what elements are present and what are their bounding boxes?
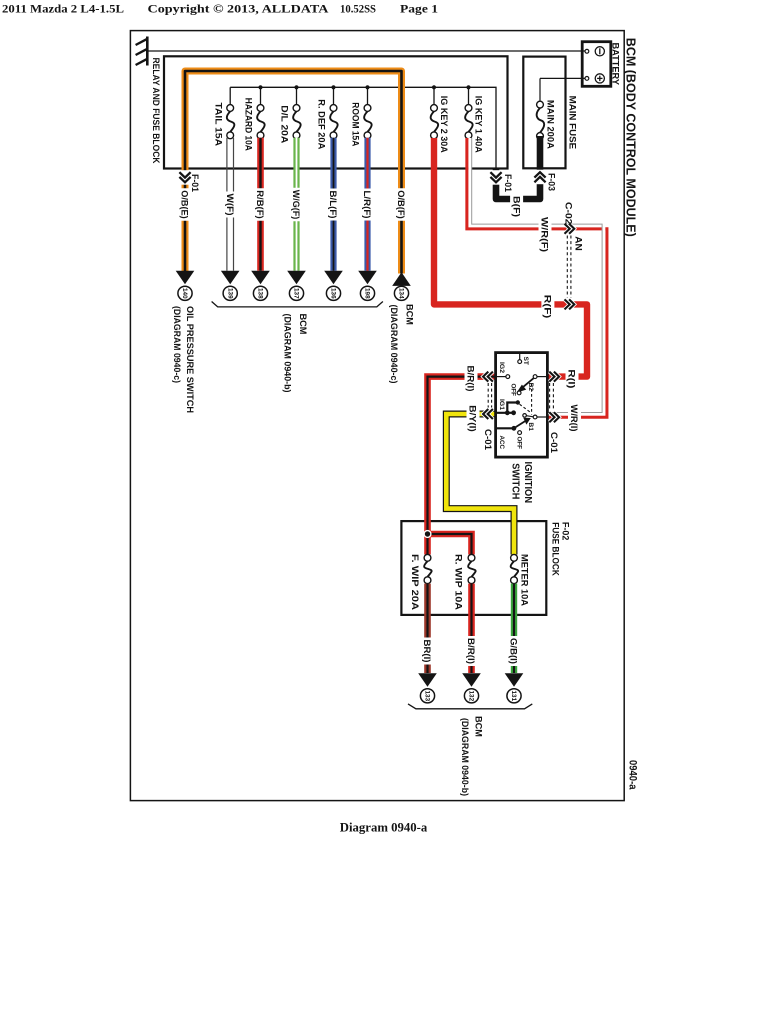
svg-text:138: 138	[257, 288, 264, 299]
connector F-01 on B(F)	[489, 170, 503, 185]
svg-text:133: 133	[424, 691, 431, 702]
fuse stub x=367.5	[367, 87, 369, 105]
fuse IG KEY 2 30A	[431, 105, 438, 112]
svg-text:G/B(I): G/B(I)	[509, 638, 519, 664]
bus wire from fuses to B(F)	[230, 87, 496, 168]
svg-text:O/B(F): O/B(F)	[396, 190, 406, 219]
arrow to terminal 140	[176, 271, 195, 285]
arrow from terminal 134	[392, 272, 411, 286]
svg-text:TAIL 15A: TAIL 15A	[213, 103, 223, 147]
junction halo	[423, 530, 431, 538]
terminal circle 136	[326, 286, 340, 300]
ignition IG1 contact L	[507, 403, 517, 412]
svg-text:O/B(E): O/B(E)	[180, 190, 190, 219]
label L/R(F)	[361, 189, 374, 221]
terminal circle 134	[394, 286, 408, 300]
svg-text:MAIN 200A: MAIN 200A	[546, 100, 556, 149]
wire W(F) white	[226, 138, 228, 271]
wire L/R(F)	[364, 138, 370, 271]
svg-text:B/Y(I): B/Y(I)	[468, 405, 478, 432]
label B(F)	[510, 195, 523, 219]
label W/R(I)	[568, 403, 581, 433]
wire B/L(F)	[330, 138, 336, 271]
svg-text:R(I): R(I)	[567, 369, 577, 388]
svg-text:(DIAGRAM 0940-c): (DIAGRAM 0940-c)	[172, 306, 182, 383]
arrow to terminal 131	[505, 673, 524, 687]
wire B/R(I) branch to R. WIP fuse	[428, 534, 472, 555]
svg-text:SWITCH: SWITCH	[509, 463, 520, 499]
svg-text:(DIAGRAM 0940-b): (DIAGRAM 0940-b)	[460, 718, 470, 796]
relay and fuse block box	[164, 56, 508, 168]
svg-text:BCM (BODY CONTROL MODULE): BCM (BODY CONTROL MODULE)	[624, 38, 639, 237]
svg-text:W/G(F): W/G(F)	[291, 190, 301, 220]
ignition B2 terminal	[533, 375, 537, 379]
fuse R. DEF 20A	[330, 105, 337, 112]
wire B(F) main fuse feed	[496, 136, 540, 199]
terminal circle 133	[420, 689, 434, 703]
label O/B(F)	[395, 188, 408, 221]
svg-text:10.52SS: 10.52SS	[340, 2, 376, 16]
svg-text:AN: AN	[573, 236, 583, 251]
connector C-01 on B/Y(I)	[488, 409, 493, 419]
label B/R(I) lower	[465, 636, 478, 666]
svg-text:D/L 20A: D/L 20A	[280, 105, 290, 143]
fuse stub x=296.5	[296, 87, 298, 105]
svg-text:F-02: F-02	[560, 522, 570, 541]
label W(F)	[224, 192, 237, 218]
ground	[146, 37, 149, 66]
wire battery positive to main fuse	[540, 77, 585, 79]
svg-text:134: 134	[398, 288, 405, 299]
label B/Y(I)	[467, 404, 480, 434]
bus junction x=260.5	[258, 85, 262, 89]
label G/B(I)	[508, 636, 521, 666]
svg-text:F-01: F-01	[503, 174, 513, 192]
label R(F)	[541, 293, 554, 320]
svg-text:BATTERY: BATTERY	[611, 43, 621, 86]
label R/B(F)	[254, 188, 267, 221]
svg-text:140: 140	[181, 288, 188, 299]
wire B/R(I) from ignition IG2	[428, 377, 496, 555]
connector C-01 on R(I)	[549, 372, 554, 382]
connector C-01 left dashed	[487, 383, 489, 408]
bus junction x=296.5	[294, 85, 298, 89]
connector C-01 on B/R(I)	[488, 372, 493, 382]
terminal circle 198	[360, 286, 374, 300]
arrow to terminal 137	[287, 271, 306, 285]
svg-text:B(F): B(F)	[511, 196, 521, 217]
label B/L(F)	[327, 189, 340, 221]
svg-text:(DIAGRAM 0940-b): (DIAGRAM 0940-b)	[283, 314, 293, 393]
svg-text:R(F): R(F)	[543, 295, 553, 319]
bus junction x=434	[432, 85, 436, 89]
label W/G(F)	[290, 188, 303, 222]
wire B/R(I) lower	[468, 584, 475, 673]
svg-text:ST: ST	[522, 357, 529, 366]
svg-text:2011 Mazda 2 L4-1.5L: 2011 Mazda 2 L4-1.5L	[2, 2, 124, 16]
battery	[582, 42, 611, 87]
svg-text:198: 198	[364, 288, 371, 299]
ignition dashed diagonal	[520, 404, 531, 412]
terminal circle 137	[289, 286, 303, 300]
ignition OFF contact lower	[518, 431, 522, 435]
svg-text:RELAY AND FUSE BLOCK: RELAY AND FUSE BLOCK	[151, 58, 161, 164]
ignition B1 inner line	[527, 416, 534, 417]
ignition OFF contact upper	[517, 391, 521, 395]
svg-text:136: 136	[330, 288, 337, 299]
svg-text:132: 132	[468, 691, 475, 702]
svg-text:IG2: IG2	[498, 362, 505, 374]
ignition IG1 terminal line	[497, 412, 514, 414]
arrow to terminal 139	[221, 271, 240, 285]
fuse stub x=434	[433, 87, 435, 105]
bus junction x=367.5	[365, 85, 369, 89]
svg-text:C-01: C-01	[549, 432, 559, 453]
terminal circle 140	[178, 286, 192, 300]
fuse stub x=260.5	[260, 87, 262, 105]
wire W/R white core	[470, 138, 604, 414]
fuse TAIL 15A	[227, 105, 234, 112]
svg-text:FUSE BLOCK: FUSE BLOCK	[551, 522, 561, 576]
fuse METER 10A	[511, 554, 518, 561]
fuse MAIN 200A	[537, 101, 544, 108]
F-02 fuse block box	[401, 521, 546, 615]
svg-text:139: 139	[226, 288, 233, 299]
fuse F. WIP 20A	[424, 554, 431, 561]
ignition B1 terminal	[533, 415, 537, 419]
svg-text:R/B(F): R/B(F)	[255, 190, 265, 219]
fuse ROOM 15A	[364, 105, 371, 112]
brace BCM group bottom	[408, 704, 532, 709]
svg-text:Copyright © 2013, ALLDATA: Copyright © 2013, ALLDATA	[148, 2, 329, 16]
bus junction x=333.5	[331, 85, 335, 89]
bus junction x=468.5	[466, 85, 470, 89]
svg-text:131: 131	[510, 691, 517, 702]
connector C-02 on W/R(F)	[565, 224, 570, 234]
label O/B(E)	[179, 188, 192, 221]
connector chevron on R(F)	[565, 299, 570, 309]
svg-text:B/R(I): B/R(I)	[466, 638, 476, 664]
wire G/B(I)	[511, 584, 517, 673]
connector F-01 on O/B(E)	[178, 170, 192, 185]
wire W/R(F) W/R(I) red stripe	[467, 138, 607, 417]
svg-text:Page 1: Page 1	[400, 2, 438, 16]
svg-text:OIL PRESSURE SWITCH: OIL PRESSURE SWITCH	[185, 306, 195, 413]
svg-text:(DIAGRAM 0940-c): (DIAGRAM 0940-c)	[389, 305, 399, 384]
svg-text:OFF: OFF	[509, 384, 516, 397]
fuse HAZARD 10A	[257, 105, 264, 112]
connector C-01 right dashed	[549, 383, 551, 410]
wire BR(I)	[424, 584, 431, 673]
svg-text:BR(I): BR(I)	[422, 640, 432, 663]
wire W/R outline	[472, 138, 602, 413]
svg-text:IG1: IG1	[498, 399, 505, 411]
svg-text:B/L(F): B/L(F)	[328, 191, 338, 219]
fuse stub x=333.5	[333, 87, 335, 105]
svg-text:Diagram 0940-a: Diagram 0940-a	[340, 821, 428, 835]
terminal circle 131	[507, 689, 521, 703]
label R(I)	[566, 368, 579, 390]
connector F-03	[533, 170, 547, 185]
fuse D/L 20A	[293, 105, 300, 112]
svg-text:C-01: C-01	[483, 429, 493, 450]
connector C-02 dashed	[566, 236, 568, 298]
svg-text:IG KEY 1 40A: IG KEY 1 40A	[474, 96, 484, 153]
terminal circle 139	[223, 286, 237, 300]
svg-text:W(F): W(F)	[225, 194, 235, 216]
svg-text:IGNITION: IGNITION	[522, 462, 533, 504]
svg-text:ROOM 15A: ROOM 15A	[351, 102, 361, 146]
wire R/B(F)	[257, 138, 264, 271]
svg-text:BCM: BCM	[404, 304, 414, 325]
wire B/Y(I) outline	[446, 414, 514, 555]
diagram border frame	[130, 31, 624, 801]
svg-text:HAZARD 10A: HAZARD 10A	[244, 98, 254, 151]
fuse IG KEY 1 40A	[465, 105, 472, 112]
svg-text:F-01: F-01	[190, 174, 200, 192]
wire battery negative to ground	[148, 50, 585, 52]
fuse stub x=230.2	[229, 87, 231, 105]
fuse stub x=468.5	[468, 87, 470, 105]
arrow to terminal 198	[358, 271, 377, 285]
label W/R(F)	[539, 216, 552, 254]
svg-text:BCM: BCM	[474, 716, 484, 737]
svg-text:0940-a: 0940-a	[626, 760, 638, 790]
ignition switch arm B1	[514, 420, 527, 428]
svg-text:B/R(I): B/R(I)	[466, 366, 476, 392]
ignition switch arm B2	[522, 378, 534, 388]
svg-text:C-02: C-02	[564, 202, 574, 225]
main fuse box	[523, 57, 565, 169]
wire O/B orange loop	[185, 71, 402, 274]
terminal circle 138	[253, 286, 267, 300]
label B/R(I) upper	[465, 364, 478, 393]
ignition switch box	[496, 353, 548, 458]
svg-text:F. WIP 20A: F. WIP 20A	[410, 554, 420, 610]
svg-text:BCM: BCM	[298, 314, 308, 335]
svg-text:OFF: OFF	[515, 437, 522, 450]
svg-text:MAIN FUSE: MAIN FUSE	[568, 96, 578, 150]
svg-text:ACC: ACC	[498, 436, 505, 450]
label BR(I)	[421, 638, 434, 665]
ignition IG2 terminal	[497, 376, 506, 378]
junction dot B/R branch	[425, 531, 430, 536]
arrow to terminal 133	[418, 673, 437, 687]
arrow to terminal 138	[251, 271, 270, 285]
ignition ACC terminal line	[497, 427, 514, 429]
fuse R. WIP 10A	[468, 554, 475, 561]
arrow to terminal 136	[324, 271, 343, 285]
svg-text:F-03: F-03	[547, 173, 557, 191]
arrow to terminal 132	[462, 673, 481, 687]
svg-text:METER 10A: METER 10A	[519, 554, 529, 606]
wire W/G(F)	[293, 138, 299, 271]
svg-text:R. DEF 20A: R. DEF 20A	[317, 99, 327, 149]
svg-text:W/R(F): W/R(F)	[540, 217, 550, 252]
svg-text:W/R(I): W/R(I)	[569, 405, 579, 432]
svg-text:137: 137	[293, 288, 300, 299]
connector C-01 on W/R(I)	[549, 412, 554, 422]
ignition linkage dashed	[531, 384, 533, 415]
svg-text:L/R(F): L/R(F)	[362, 191, 372, 219]
svg-text:B1: B1	[527, 422, 534, 431]
ignition ST stub	[519, 354, 521, 360]
terminal circle 132	[464, 689, 478, 703]
svg-text:R. WIP 10A: R. WIP 10A	[454, 554, 464, 610]
wire R(F) R(I) from IG KEY 2 to ignition switch B2	[434, 138, 587, 377]
brace BCM group top	[212, 302, 383, 307]
svg-text:IG KEY 2 30A: IG KEY 2 30A	[439, 96, 449, 153]
